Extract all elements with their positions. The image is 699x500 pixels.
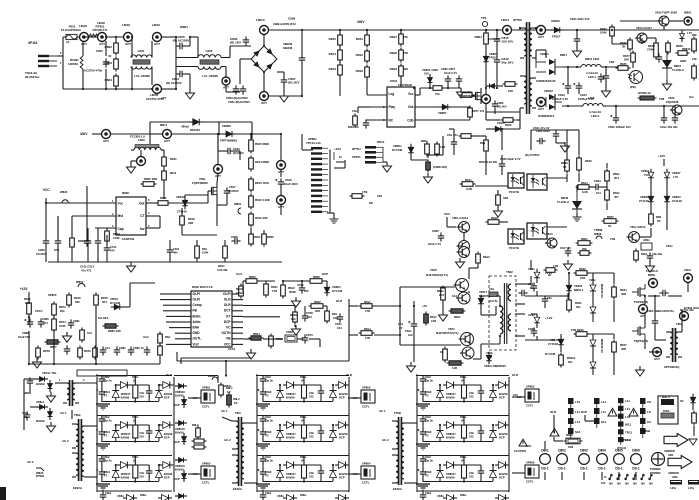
wire <box>175 74 177 89</box>
ground earth <box>256 444 270 450</box>
wire <box>115 440 117 443</box>
wire <box>480 465 482 468</box>
node L8017 <box>503 26 512 35</box>
svg-text:14D681: 14D681 <box>68 62 79 66</box>
capacitor C900a <box>99 375 106 384</box>
svg-text:R853: R853 <box>249 275 256 279</box>
capacitor C910b <box>257 388 266 397</box>
resistor R864 <box>577 156 582 173</box>
svg-text:223: 223 <box>307 315 312 319</box>
svg-text:474: 474 <box>110 249 115 253</box>
svg-text:40R: 40R <box>621 347 626 351</box>
wire <box>131 67 133 90</box>
wire <box>495 306 497 315</box>
wire <box>176 352 178 361</box>
svg-text:R8x7: R8x7 <box>454 315 461 319</box>
diode VD809 <box>492 126 505 132</box>
wire <box>606 203 608 210</box>
capacitor C820b <box>610 114 619 123</box>
wire <box>218 150 225 152</box>
wire <box>262 424 264 430</box>
wire <box>481 314 496 316</box>
wire <box>55 382 63 384</box>
svg-text:0.1: 0.1 <box>530 286 534 290</box>
capacitor C842b <box>536 138 545 145</box>
svg-text:C8x: C8x <box>377 194 383 198</box>
svg-text:C8z: C8z <box>692 57 697 61</box>
wire <box>339 75 341 96</box>
resistor R809 block <box>564 438 583 444</box>
wire <box>480 344 482 359</box>
zener VZ811 <box>590 304 596 317</box>
optocoupler U804 <box>508 229 524 244</box>
ground <box>494 207 503 217</box>
wire <box>101 424 103 430</box>
svg-text:AC-2: AC-2 <box>382 438 389 442</box>
svg-text:(2)1/50V: (2)1/50V <box>233 151 244 155</box>
wire <box>423 481 493 483</box>
wire <box>327 212 334 214</box>
wire <box>218 122 220 134</box>
wire <box>553 421 555 433</box>
svg-text:Out: Out <box>408 105 414 109</box>
wire <box>158 385 160 387</box>
wire <box>169 255 171 262</box>
svg-text:L8004: L8004 <box>152 23 160 27</box>
resistor R803 <box>105 57 119 72</box>
svg-text:75k: 75k <box>403 35 408 39</box>
capacitor C809b <box>43 237 50 246</box>
svg-text:104: 104 <box>596 191 601 195</box>
svg-text:DS-1: DS-1 <box>541 466 548 470</box>
wire <box>297 384 321 386</box>
node L8006 <box>277 196 286 210</box>
transistor V813 <box>635 33 647 43</box>
svg-text:KT: KT <box>226 314 230 318</box>
zener VD841 <box>428 74 433 86</box>
wire <box>189 74 191 90</box>
wire <box>232 293 243 295</box>
svg-text:AC-1: AC-1 <box>221 409 228 413</box>
wire <box>469 107 471 118</box>
wire <box>134 456 136 464</box>
wire <box>232 304 243 306</box>
resistor R849 <box>692 37 697 54</box>
wire <box>547 177 567 179</box>
wire <box>309 338 320 340</box>
capacitor C851 fusible <box>489 292 498 296</box>
svg-text:R818: R818 <box>390 51 398 55</box>
wire <box>566 130 568 160</box>
wire <box>589 186 594 188</box>
svg-text:BAV99: BAV99 <box>164 472 173 476</box>
svg-text:AVT: AVT <box>164 139 170 143</box>
jumper W852 <box>78 284 85 288</box>
wire <box>357 107 359 113</box>
svg-text:W811: W811 <box>560 53 567 57</box>
capacitor C910a <box>260 375 267 384</box>
resistor R882 <box>93 346 98 360</box>
transformer T803 <box>63 380 79 406</box>
svg-text:VD8017: VD8017 <box>121 392 131 396</box>
connector BJC-4 <box>658 395 678 424</box>
svg-text:19V: 19V <box>649 483 654 486</box>
wire <box>176 57 198 59</box>
wire <box>408 422 417 424</box>
svg-text:VD8x1: VD8x1 <box>36 400 45 404</box>
svg-text:DCP: DCP <box>174 403 180 407</box>
wire <box>123 306 130 308</box>
svg-text:AVT: AVT <box>103 139 109 143</box>
svg-text:OLPI: OLPI <box>223 292 231 296</box>
wire <box>562 29 593 31</box>
svg-text:TP2: TP2 <box>481 16 487 20</box>
ground bus wire <box>48 261 282 263</box>
wire <box>457 384 481 386</box>
diode VD821a <box>36 405 48 410</box>
svg-text:C824: C824 <box>594 179 601 183</box>
svg-text:27R: 27R <box>580 276 585 280</box>
svg-text:223: 223 <box>139 435 144 439</box>
wire <box>349 334 358 336</box>
diode VDM2a <box>175 458 187 463</box>
svg-text:104: 104 <box>43 321 48 325</box>
capacitor C921a <box>420 415 427 424</box>
svg-text:BAV99: BAV99 <box>175 468 184 472</box>
arrow AR1 <box>664 434 688 447</box>
wire <box>175 315 191 317</box>
resistor R901 <box>133 423 138 441</box>
svg-text:R852: R852 <box>314 300 321 304</box>
wire <box>439 480 441 483</box>
wire <box>562 66 581 68</box>
svg-text:W7821: W7821 <box>36 474 45 478</box>
svg-text:2K1: 2K1 <box>614 176 620 180</box>
wire <box>648 295 660 297</box>
capacitor C851b <box>408 320 417 329</box>
capacitor C849 <box>672 114 679 123</box>
diode VD902b <box>117 462 131 469</box>
svg-text:DY4148: DY4148 <box>110 301 121 305</box>
wire <box>262 437 264 443</box>
wire <box>320 465 322 468</box>
svg-text:DCP: DCP <box>164 396 170 400</box>
wire <box>207 191 209 203</box>
svg-text:T50B: T50B <box>394 411 401 415</box>
svg-text:D8: D8 <box>369 201 373 205</box>
wire <box>400 344 461 346</box>
svg-text:R810: R810 <box>505 123 512 127</box>
wire <box>102 481 159 483</box>
svg-text:M850: M850 <box>648 273 655 277</box>
svg-text:M-BT2907AC(T1): M-BT2907AC(T1) <box>436 331 458 335</box>
svg-text:OLR: OLR <box>512 373 518 377</box>
svg-text:R8L1: R8L1 <box>226 386 233 390</box>
svg-text:L11: L11 <box>575 410 580 414</box>
wire <box>480 425 482 428</box>
node L8016 <box>137 157 146 166</box>
wire <box>348 299 350 335</box>
svg-text:10R: 10R <box>568 445 573 449</box>
svg-text:MB6L1: MB6L1 <box>574 288 584 292</box>
svg-text:FCC801-LA: FCC801-LA <box>130 135 145 139</box>
wire <box>469 333 471 345</box>
wire <box>544 304 546 308</box>
wire <box>536 280 538 283</box>
svg-text:223: 223 <box>309 435 314 439</box>
wire <box>663 159 665 166</box>
svg-text:AC-2: AC-2 <box>224 438 231 442</box>
diode VD821b <box>48 408 53 420</box>
node L8021 <box>537 98 546 112</box>
wire <box>632 65 634 69</box>
wire <box>29 386 31 392</box>
wire <box>400 286 455 288</box>
wire <box>243 280 246 282</box>
diode VD921a <box>437 427 444 441</box>
svg-text:VB: VB <box>226 337 231 341</box>
varistor RV801 <box>80 54 83 72</box>
wire <box>320 436 322 442</box>
svg-text:DCP: DCP <box>499 436 505 440</box>
svg-text:C842 R816: C842 R816 <box>536 129 550 133</box>
wire <box>294 306 296 311</box>
wire <box>101 456 103 457</box>
resistor R804 <box>105 74 119 89</box>
wire <box>320 396 322 402</box>
diode VD902d <box>159 462 173 469</box>
svg-text:VCC: VCC <box>224 342 231 346</box>
wire <box>174 375 218 377</box>
svg-text:L1x: L1x <box>625 399 631 403</box>
connector XP93 CCFL <box>361 386 375 409</box>
capacitor C826 <box>438 232 445 241</box>
svg-text:XP805: XP805 <box>526 385 535 389</box>
svg-text:V813 AC947: V813 AC947 <box>636 26 652 30</box>
wire <box>188 473 201 475</box>
wire <box>222 417 232 421</box>
capacitor C890 <box>27 377 34 386</box>
svg-text:VD806: VD806 <box>222 124 231 128</box>
wire <box>497 190 499 193</box>
wire <box>568 273 570 283</box>
wire <box>560 295 568 297</box>
svg-text:CAUTION: CAUTION <box>514 449 526 453</box>
transistor V802 <box>457 222 470 233</box>
wire <box>521 335 525 337</box>
capacitor C817 <box>224 187 231 196</box>
inductor L805 <box>580 104 606 107</box>
svg-text:AVT: AVT <box>538 35 544 39</box>
inductor L201 bar <box>670 480 682 485</box>
svg-text:R8x9: R8x9 <box>491 216 498 220</box>
resistor R871t <box>544 268 558 273</box>
svg-text:R858: R858 <box>313 275 320 279</box>
svg-text:(C828 223): (C828 223) <box>433 165 447 169</box>
svg-text:DCP: DCP <box>339 436 345 440</box>
svg-text:R816: R816 <box>356 69 364 73</box>
wire <box>413 329 415 362</box>
svg-text:VCC1: VCC1 <box>35 309 43 313</box>
node CR6 <box>684 274 693 283</box>
wire <box>101 416 103 417</box>
resistor R867 <box>605 188 610 203</box>
svg-text:17R: 17R <box>365 309 370 313</box>
capacitor C825 <box>445 75 452 84</box>
wire <box>262 397 264 403</box>
diode VD912a <box>277 467 284 481</box>
resistor R811b <box>249 232 254 247</box>
svg-text:10p 3n: 10p 3n <box>265 379 274 383</box>
transformer T804 <box>72 419 88 481</box>
thermistor RT801 <box>86 34 101 37</box>
wire <box>666 180 668 194</box>
svg-text:BAV99: BAV99 <box>286 436 295 440</box>
wire <box>496 65 498 86</box>
resistor R883 <box>158 332 163 346</box>
capacitor C826b <box>492 100 499 109</box>
resistor R858a <box>459 134 474 139</box>
resistor R812 <box>356 49 370 64</box>
wire <box>72 215 116 217</box>
wire <box>232 315 243 317</box>
capacitor C813b <box>84 237 91 246</box>
diode VD920c <box>490 387 497 401</box>
wire <box>175 299 191 301</box>
wire <box>175 422 177 424</box>
wire <box>415 94 420 96</box>
svg-text:2Y4148: 2Y4148 <box>639 199 649 203</box>
resistor R813b <box>249 177 254 193</box>
resistor R844 <box>612 285 617 300</box>
wire <box>501 155 503 161</box>
wire <box>175 327 191 329</box>
svg-text:R809: R809 <box>160 196 167 200</box>
ground <box>636 366 645 376</box>
wire <box>160 299 175 301</box>
wire <box>175 37 177 74</box>
wire <box>265 281 267 282</box>
wire <box>175 321 191 323</box>
wire <box>257 280 275 282</box>
wire <box>170 202 208 204</box>
wire <box>257 375 349 377</box>
diode VD813 <box>478 295 484 308</box>
svg-text:Out: Out <box>139 201 145 205</box>
svg-text:W5x4: W5x4 <box>377 140 385 144</box>
wire <box>666 204 668 230</box>
resistor R884b <box>158 344 163 358</box>
svg-text:OLR: OLR <box>346 373 352 377</box>
svg-text:VD8017: VD8017 <box>121 472 131 476</box>
diode VD815 <box>566 282 572 295</box>
resistor R817c <box>424 312 429 326</box>
svg-text:27k: 27k <box>435 92 440 96</box>
wire <box>279 400 281 403</box>
wire <box>496 295 500 297</box>
wire <box>536 314 538 316</box>
wire <box>408 482 417 484</box>
wire <box>322 280 327 282</box>
resistor R854 fusible <box>249 336 264 340</box>
diode VD911a <box>277 427 284 441</box>
svg-text:NTC8D-471: NTC8D-471 <box>93 28 108 32</box>
wire <box>606 163 608 168</box>
wire <box>663 26 665 30</box>
svg-text:VD8017: VD8017 <box>121 432 131 436</box>
zener VZ804 <box>648 169 654 182</box>
svg-text:LED-2: LED-2 <box>591 114 600 118</box>
photo-transistor U803B <box>628 71 643 84</box>
resistor R865 <box>576 185 592 190</box>
resistor R858b <box>308 279 325 284</box>
wire <box>105 69 107 89</box>
wire <box>131 160 137 162</box>
resistor R8x1 left <box>353 114 358 128</box>
wire <box>326 281 328 285</box>
svg-text:BAV99: BAV99 <box>286 476 295 480</box>
transistor V814 <box>545 238 557 248</box>
wire <box>28 317 30 325</box>
pin header strip C <box>618 398 633 445</box>
svg-text:1TB: 1TB <box>362 190 367 194</box>
zener VZ810 <box>590 282 596 295</box>
wire <box>606 183 608 188</box>
svg-text:Adim: Adim <box>193 320 201 324</box>
ground <box>292 325 301 335</box>
svg-text:SPT23612Q: SPT23612Q <box>664 365 680 369</box>
wire <box>535 50 537 60</box>
svg-text:4'2: 4'2 <box>265 434 269 438</box>
svg-text:XP803: XP803 <box>362 386 371 390</box>
wire <box>499 296 501 306</box>
svg-text:R8x: R8x <box>165 335 171 339</box>
wire <box>584 415 586 421</box>
ground <box>407 362 416 372</box>
wire <box>439 465 441 467</box>
svg-text:C881: C881 <box>73 319 80 323</box>
svg-text:S1x: S1x <box>601 420 607 424</box>
bridge rectifier VB801 <box>251 45 277 73</box>
wire <box>471 135 486 137</box>
svg-text:4'2: 4'2 <box>104 434 108 438</box>
svg-text:340V: 340V <box>357 20 365 24</box>
wire <box>339 30 341 34</box>
svg-text:100K: 100K <box>202 251 208 255</box>
svg-text:VD812: VD812 <box>544 89 553 93</box>
wire <box>567 293 569 299</box>
svg-text:1R: 1R <box>440 350 444 354</box>
wire <box>592 349 594 359</box>
diode VD803 boost <box>189 119 203 126</box>
svg-text:AC-1: AC-1 <box>60 411 67 415</box>
svg-text:Mst: Mst <box>118 214 124 218</box>
svg-text:223: 223 <box>309 475 314 479</box>
svg-text:10U 20V: 10U 20V <box>501 39 514 43</box>
resistor R871 <box>27 301 32 317</box>
resistor R845 <box>503 82 518 87</box>
wire <box>28 292 30 302</box>
wire <box>442 136 444 155</box>
svg-text:W804: W804 <box>180 25 188 29</box>
svg-text:8012: 8012 <box>170 171 177 175</box>
node M821 <box>653 348 662 362</box>
svg-text:LCL-2408R: LCL-2408R <box>134 74 151 78</box>
svg-text:L805: L805 <box>588 96 595 100</box>
wire <box>508 377 510 492</box>
wire <box>150 133 163 135</box>
diode VD851 <box>111 304 124 310</box>
